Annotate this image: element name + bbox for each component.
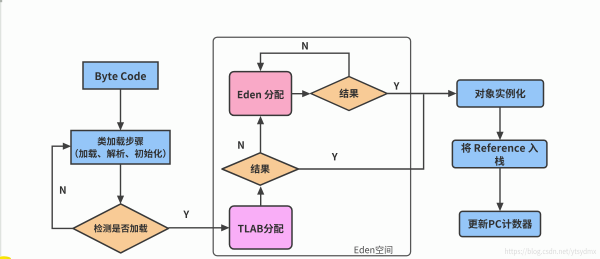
node class-load-steps box [71,131,170,165]
wire reference to pc-counter [496,168,503,212]
label 栈 [495,156,505,166]
watermark csdn url [505,248,596,256]
node Byte Code box [83,62,158,89]
wire class-load to check-diamond [117,164,124,204]
wire instantiate to reference [496,107,503,140]
wire result1 N loop to Eden top [257,53,349,76]
decision 结果 upper [311,77,387,111]
label 更新PC计数器 [468,219,532,229]
label Byte Code [95,72,146,83]
node 将Reference入栈 box [452,140,547,167]
wire Eden to result1 [292,90,311,97]
label 将 Reference 入 [461,143,538,153]
node TLAB分配 box [230,206,293,249]
wire Byte Code to class-load [117,89,124,131]
wire result2 Y join [298,94,423,169]
label （加载、解析、初始化） [76,149,166,158]
label Y result1 [394,82,400,89]
label N left loop [60,186,66,193]
decision 检测是否加载 [73,204,168,253]
label 结果 upper [339,89,358,98]
label 结果 lower [251,164,270,173]
node 对象实例化 box [457,80,544,107]
label N result2 [238,141,244,148]
label Y result2 [332,153,338,160]
label 类加载步骤 [98,137,144,146]
node 更新PC计数器 box [460,211,541,236]
label TLAB分配 [238,224,284,233]
label 对象实例化 [475,89,525,99]
label Y to TLAB [183,211,189,218]
node Eden 分配 box [230,72,292,116]
wire result2 N up to Eden [257,116,264,153]
wire Y to TLAB [168,224,229,231]
label N result1 [302,42,308,49]
top-left corner smudge [0,0,2,2]
left edge gray strip [0,0,1,256]
wire TLAB to result2 [257,186,264,206]
wire result1 Y to instantiate [387,90,456,97]
label 检测是否加载 [94,224,148,233]
label Eden 分配 [238,90,284,99]
decision 结果 lower [222,153,298,185]
wire N loop back to class-load [52,143,73,229]
label Eden空间 [355,246,393,254]
container: Eden space region [213,37,410,256]
bottom-left yellow mark [0,256,11,259]
